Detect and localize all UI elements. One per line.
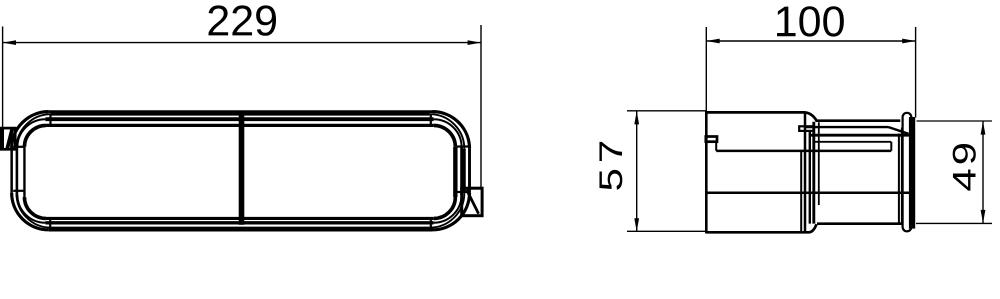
dimension 229 extension line right — [480, 25, 482, 187]
latch rail chamfer — [889, 127, 909, 134]
wall line a — [800, 151, 802, 231]
latch rail bar — [810, 134, 910, 137]
dimension 100 text — [777, 6, 844, 36]
tangent tick top-right — [430, 114, 432, 125]
dimension 57 extension line top — [627, 110, 706, 112]
spigot bottom edge — [817, 222, 903, 225]
tangent tick left-top — [13, 146, 24, 148]
tangent tick top-left — [49, 114, 51, 125]
wall line d — [812, 122, 815, 224]
latch channel top line — [815, 141, 891, 143]
latch rail stub — [799, 126, 813, 131]
mounting tab bottom-right — [462, 188, 482, 216]
dimension 57 text (rotated) — [599, 142, 622, 190]
wall line c — [809, 131, 811, 224]
dimension 49 arrow top — [981, 121, 986, 134]
dimension 100 extension line right — [915, 27, 917, 118]
adapter body bottom edge — [706, 224, 817, 232]
dimension 49 arrow bottom — [981, 210, 986, 223]
dimension 229 line — [3, 42, 481, 44]
dimension 100 line — [707, 40, 916, 42]
dimension 49 extension line top — [917, 120, 993, 122]
latch channel right edge — [890, 142, 892, 151]
clip pocket on body left edge — [706, 137, 717, 142]
duct outer rounded rectangle — [49, 110, 433, 113]
dimension 49 text (rotated) — [953, 144, 976, 191]
dimension 49 extension line bottom — [916, 222, 992, 224]
mounting tab top-left — [1, 128, 15, 150]
adapter body left edge — [705, 111, 708, 233]
dimension 57 line — [636, 111, 638, 231]
adapter body top edge — [706, 112, 817, 121]
dimension 100 arrow right — [902, 39, 915, 44]
body seam line — [716, 150, 891, 153]
wall line e — [818, 122, 820, 205]
central divider bar — [239, 111, 245, 225]
tangent tick bottom-right — [430, 219, 432, 230]
dimension 100 extension line left — [705, 27, 707, 112]
wall line b — [804, 114, 807, 233]
dimension 229 extension line left — [2, 27, 4, 128]
duct wall ring 2 — [51, 113, 430, 116]
dimension 57 arrow top — [634, 111, 639, 124]
flange bar — [909, 117, 915, 229]
dimension 229 text — [209, 5, 277, 35]
spigot end wall a — [898, 134, 900, 224]
spigot top edge — [816, 119, 900, 122]
tangent tick right-bottom — [457, 191, 468, 193]
dimension 57 extension line bottom — [627, 230, 706, 232]
tangent tick left-bottom — [13, 190, 24, 192]
dimension 49 line — [982, 121, 984, 223]
sealing lip capsule — [903, 113, 912, 232]
dimension 57 arrow bottom — [634, 218, 639, 231]
duct inner rounded rectangle — [46, 124, 434, 127]
clip pocket stem — [715, 143, 717, 151]
dimension 100 arrow left — [706, 39, 719, 44]
dimension 229 arrow left — [3, 40, 16, 45]
body mid line — [706, 191, 909, 194]
tangent tick right-top — [457, 145, 468, 147]
dimension 229 arrow right — [468, 40, 481, 45]
spigot end wall b — [901, 128, 903, 224]
tangent tick bottom-left — [49, 219, 51, 230]
latch rail top line — [805, 126, 889, 128]
duct wall ring 3 — [45, 117, 433, 121]
